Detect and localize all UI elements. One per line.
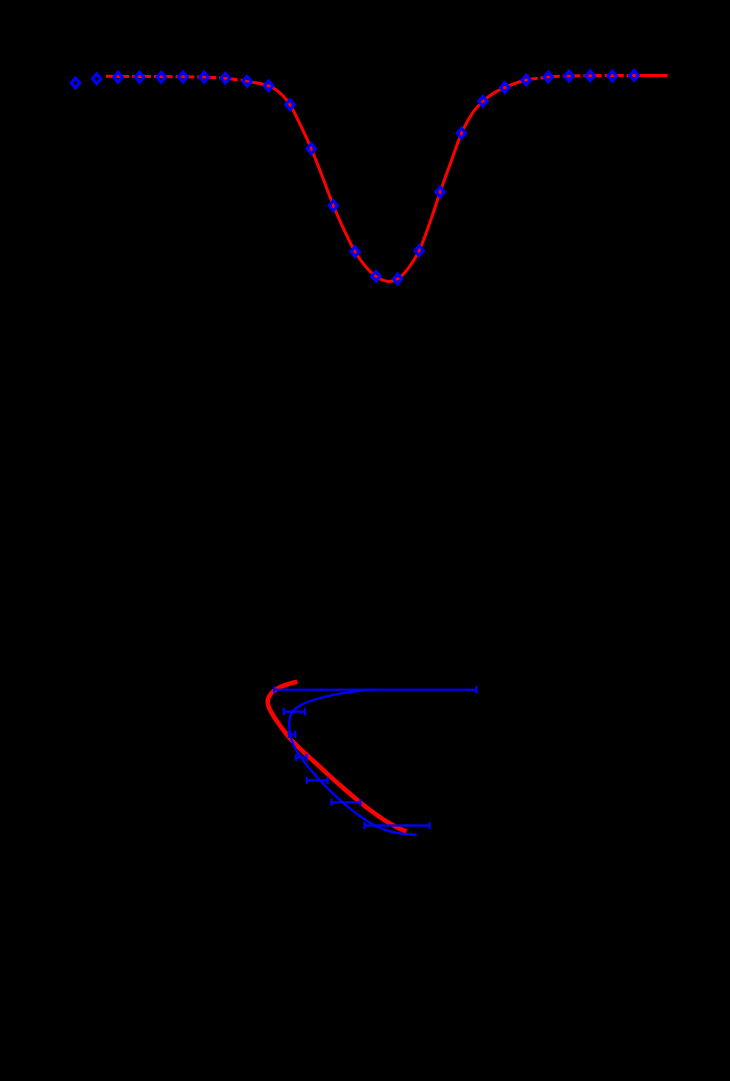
bottom panel: blue horizontal error bars: [274, 686, 476, 829]
bottom panel: blue observed bisector curve: [289, 690, 417, 835]
top panel: red model line-profile curve: [106, 75, 668, 281]
top panel: blue open diamond data markers: [71, 70, 638, 284]
dash gaps on red curve: [131, 73, 626, 82]
bottom panel: red model bisector curve: [268, 682, 407, 832]
